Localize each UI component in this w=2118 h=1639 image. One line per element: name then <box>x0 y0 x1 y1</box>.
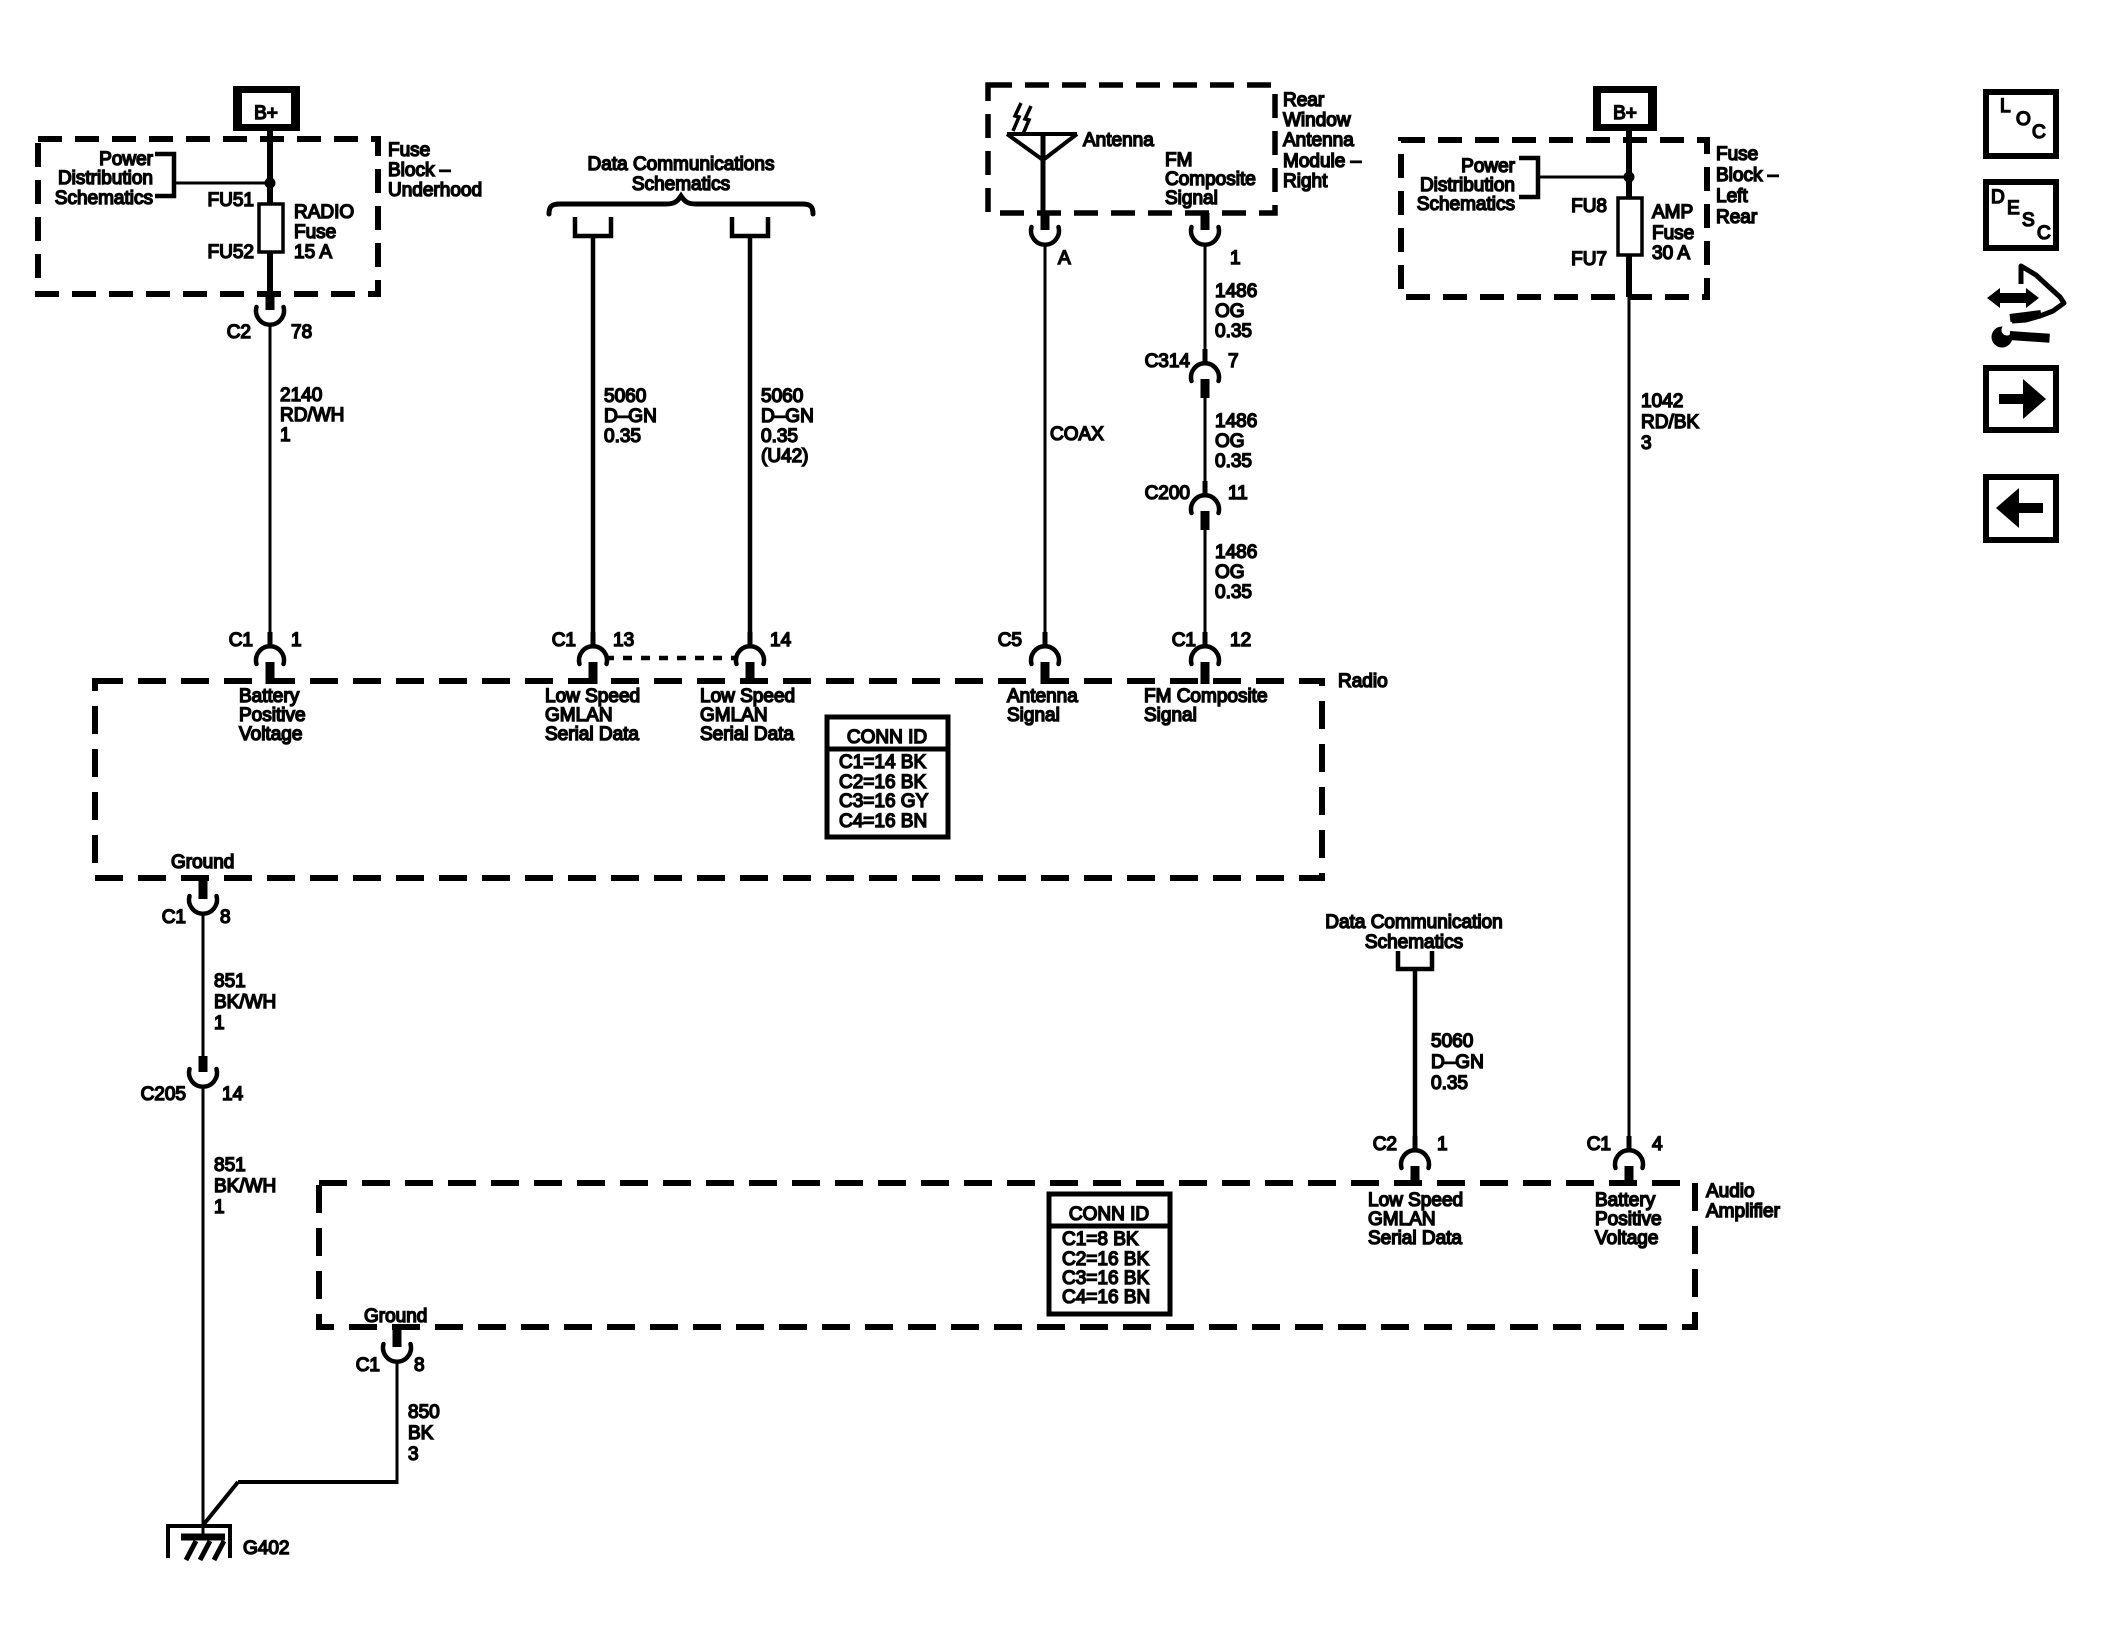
svg-text:BK/WH: BK/WH <box>214 992 276 1013</box>
svg-text:C1: C1 <box>162 907 186 928</box>
svg-text:Signal: Signal <box>1144 705 1197 726</box>
svg-text:C5: C5 <box>998 630 1022 651</box>
svg-text:Underhood: Underhood <box>388 180 482 201</box>
svg-text:GMLAN: GMLAN <box>700 705 768 726</box>
svg-text:Ground: Ground <box>171 852 234 873</box>
svg-text:851: 851 <box>214 1155 246 1176</box>
svg-text:1: 1 <box>214 1013 225 1034</box>
svg-text:Module –: Module – <box>1283 151 1362 172</box>
svg-text:0.35: 0.35 <box>761 426 798 447</box>
svg-text:13: 13 <box>613 630 634 651</box>
svg-text:FU52: FU52 <box>208 242 254 263</box>
svg-text:L: L <box>2000 96 2011 117</box>
svg-text:Battery: Battery <box>1595 1190 1656 1211</box>
svg-text:1: 1 <box>1437 1134 1448 1155</box>
svg-text:Positive: Positive <box>239 705 306 726</box>
svg-text:C314: C314 <box>1145 351 1191 372</box>
svg-text:Fuse: Fuse <box>388 140 430 161</box>
svg-text:C2: C2 <box>1373 1134 1397 1155</box>
svg-text:0.35: 0.35 <box>1215 451 1252 472</box>
svg-text:8: 8 <box>414 1355 425 1376</box>
svg-text:Fuse: Fuse <box>1652 223 1694 244</box>
svg-text:Low Speed: Low Speed <box>545 686 640 707</box>
svg-text:C4=16 BN: C4=16 BN <box>839 811 927 832</box>
svg-text:Low Speed: Low Speed <box>700 686 795 707</box>
svg-text:78: 78 <box>291 322 312 343</box>
svg-text:FU51: FU51 <box>208 190 254 211</box>
svg-text:GMLAN: GMLAN <box>1368 1209 1436 1230</box>
svg-text:Right: Right <box>1283 171 1328 192</box>
svg-text:30 A: 30 A <box>1652 243 1690 264</box>
svg-text:BK: BK <box>408 1423 434 1444</box>
svg-text:Signal: Signal <box>1165 188 1218 209</box>
svg-text:FM: FM <box>1165 150 1192 171</box>
svg-text:C1=14 BK: C1=14 BK <box>839 752 926 773</box>
svg-text:Serial Data: Serial Data <box>700 724 794 745</box>
svg-text:3: 3 <box>1641 433 1652 454</box>
svg-text:1486: 1486 <box>1215 542 1257 563</box>
svg-text:RADIO: RADIO <box>294 202 354 223</box>
svg-text:Schematics: Schematics <box>1365 932 1463 953</box>
svg-text:GMLAN: GMLAN <box>545 705 613 726</box>
svg-text:11: 11 <box>1228 483 1248 504</box>
svg-text:0.35: 0.35 <box>604 426 641 447</box>
svg-text:Low Speed: Low Speed <box>1368 1190 1463 1211</box>
svg-text:Signal: Signal <box>1007 705 1060 726</box>
svg-text:1486: 1486 <box>1215 411 1257 432</box>
svg-text:D–GN: D–GN <box>761 406 814 427</box>
svg-text:C: C <box>2037 223 2051 244</box>
svg-text:C4=16 BN: C4=16 BN <box>1062 1287 1150 1308</box>
svg-text:OG: OG <box>1215 562 1245 583</box>
svg-text:Rear: Rear <box>1283 90 1325 111</box>
svg-text:1486: 1486 <box>1215 281 1257 302</box>
svg-text:D: D <box>1991 187 2005 208</box>
svg-text:1042: 1042 <box>1641 391 1683 412</box>
svg-text:C2: C2 <box>227 322 251 343</box>
svg-text:Data Communication: Data Communication <box>1325 912 1502 933</box>
svg-text:O: O <box>2016 109 2031 130</box>
svg-text:COAX: COAX <box>1050 424 1104 445</box>
svg-text:15 A: 15 A <box>294 242 332 263</box>
svg-text:Fuse: Fuse <box>294 222 336 243</box>
svg-text:14: 14 <box>222 1084 244 1105</box>
svg-text:B+: B+ <box>1613 103 1637 124</box>
svg-text:Audio: Audio <box>1706 1181 1755 1202</box>
svg-text:OG: OG <box>1215 301 1245 322</box>
svg-text:Positive: Positive <box>1595 1209 1662 1230</box>
svg-text:RD/WH: RD/WH <box>280 405 344 426</box>
svg-text:S: S <box>2022 210 2035 231</box>
svg-text:12: 12 <box>1230 630 1251 651</box>
svg-text:AMP: AMP <box>1652 202 1693 223</box>
svg-text:Schematics: Schematics <box>55 188 153 209</box>
svg-text:Voltage: Voltage <box>239 724 302 745</box>
svg-text:0.35: 0.35 <box>1215 321 1252 342</box>
svg-text:Antenna: Antenna <box>1007 686 1078 707</box>
svg-text:0.35: 0.35 <box>1215 582 1252 603</box>
svg-text:Serial Data: Serial Data <box>545 724 639 745</box>
svg-text:C1: C1 <box>1587 1134 1611 1155</box>
svg-text:C1: C1 <box>552 630 576 651</box>
svg-text:Antenna: Antenna <box>1283 130 1354 151</box>
svg-text:1: 1 <box>280 425 291 446</box>
svg-text:Composite: Composite <box>1165 169 1256 190</box>
svg-text:Fuse: Fuse <box>1716 144 1758 165</box>
svg-text:2140: 2140 <box>280 385 322 406</box>
svg-text:Data Communications: Data Communications <box>588 154 775 175</box>
svg-text:Amplifier: Amplifier <box>1706 1201 1781 1222</box>
svg-text:C1: C1 <box>229 630 253 651</box>
svg-text:0.35: 0.35 <box>1431 1073 1468 1094</box>
svg-text:Schematics: Schematics <box>1417 194 1515 215</box>
svg-text:3: 3 <box>408 1444 419 1465</box>
svg-text:Block –: Block – <box>388 160 451 181</box>
svg-text:850: 850 <box>408 1402 440 1423</box>
svg-text:8: 8 <box>220 907 231 928</box>
svg-text:851: 851 <box>214 971 246 992</box>
svg-text:CONN ID: CONN ID <box>847 727 927 748</box>
svg-text:D–GN: D–GN <box>1431 1052 1484 1073</box>
svg-text:Rear: Rear <box>1716 207 1758 228</box>
svg-text:4: 4 <box>1652 1134 1663 1155</box>
svg-text:C205: C205 <box>141 1084 186 1105</box>
svg-text:7: 7 <box>1228 351 1239 372</box>
svg-text:14: 14 <box>770 630 792 651</box>
svg-text:Left: Left <box>1716 186 1748 207</box>
svg-text:Distribution: Distribution <box>58 168 153 189</box>
svg-text:C2=16 BK: C2=16 BK <box>839 772 926 793</box>
svg-text:RD/BK: RD/BK <box>1641 412 1699 433</box>
svg-text:C: C <box>2032 122 2046 143</box>
svg-text:FU7: FU7 <box>1571 249 1607 270</box>
svg-text:B+: B+ <box>254 103 278 124</box>
svg-text:Voltage: Voltage <box>1595 1228 1658 1249</box>
svg-text:FU8: FU8 <box>1571 196 1607 217</box>
svg-text:5060: 5060 <box>761 386 803 407</box>
svg-text:C2=16 BK: C2=16 BK <box>1062 1249 1149 1270</box>
svg-text:BK/WH: BK/WH <box>214 1176 276 1197</box>
svg-text:Antenna: Antenna <box>1083 130 1154 151</box>
svg-text:G402: G402 <box>243 1538 289 1559</box>
svg-text:C1=8 BK: C1=8 BK <box>1062 1229 1139 1250</box>
svg-text:Window: Window <box>1283 110 1351 131</box>
svg-text:Distribution: Distribution <box>1420 175 1515 196</box>
svg-text:FM Composite: FM Composite <box>1144 686 1268 707</box>
svg-text:A: A <box>1058 248 1071 269</box>
svg-text:E: E <box>2007 198 2020 219</box>
svg-text:1: 1 <box>214 1197 225 1218</box>
svg-text:5060: 5060 <box>604 386 646 407</box>
svg-text:Serial Data: Serial Data <box>1368 1228 1462 1249</box>
svg-text:1: 1 <box>291 630 302 651</box>
svg-text:(U42): (U42) <box>761 446 809 467</box>
svg-text:C1: C1 <box>1172 630 1196 651</box>
svg-text:Battery: Battery <box>239 686 300 707</box>
svg-text:Radio: Radio <box>1338 671 1388 692</box>
svg-text:Block –: Block – <box>1716 165 1779 186</box>
svg-text:CONN ID: CONN ID <box>1069 1204 1149 1225</box>
svg-text:C200: C200 <box>1145 483 1190 504</box>
svg-text:OG: OG <box>1215 431 1245 452</box>
svg-text:Ground: Ground <box>364 1306 427 1327</box>
svg-text:1: 1 <box>1230 248 1241 269</box>
svg-text:C3=16 BK: C3=16 BK <box>1062 1268 1149 1289</box>
svg-text:Power: Power <box>1461 156 1516 177</box>
svg-text:Power: Power <box>99 149 154 170</box>
svg-text:C3=16 GY: C3=16 GY <box>839 791 929 812</box>
svg-text:5060: 5060 <box>1431 1031 1473 1052</box>
svg-text:C1: C1 <box>356 1355 380 1376</box>
svg-text:D–GN: D–GN <box>604 406 657 427</box>
